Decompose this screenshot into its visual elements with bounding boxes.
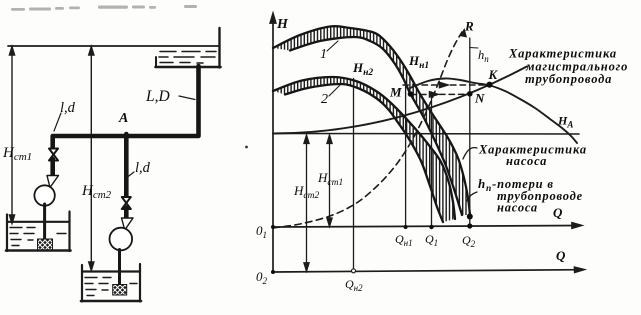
svg-text:Характеристика: Характеристика (508, 47, 617, 61)
leader h_n losses (467, 192, 478, 201)
leader l,d 2 (128, 172, 135, 177)
faded header text fragments (11, 5, 197, 11)
svg-text:02: 02 (256, 269, 268, 286)
text: characteristic of main pipeline (508, 47, 628, 87)
svg-text:насоса: насоса (497, 201, 538, 215)
vertical line Q_n2 (353, 79, 355, 272)
svg-text:HA: HA (557, 114, 573, 130)
H_ст2 dimension arrow (graph) (304, 135, 309, 271)
pipeline (network) characteristic curve (273, 66, 527, 133)
svg-text:Q: Q (553, 205, 563, 220)
point Q2 top (467, 214, 473, 220)
dimension H_cт1 line (9, 47, 14, 224)
svg-text:Hст1: Hст1 (2, 145, 32, 163)
hatched band pump curve 2 (273, 77, 455, 222)
svg-text:Hн2: Hн2 (352, 60, 373, 78)
tick Q_n2 (352, 269, 356, 273)
axis Q lower (O2) (273, 267, 584, 272)
svg-text:Q1: Q1 (425, 232, 438, 248)
valve V2 (122, 197, 131, 209)
suction pipe pump 1 upper (50, 159, 55, 176)
tank T2 (81, 264, 141, 302)
text: h_n losses in pump pipeline (478, 176, 583, 215)
svg-text:Hн1: Hн1 (408, 53, 429, 71)
leader l,d (54, 113, 61, 131)
H_ст1 dimension arrow (graph) (327, 135, 332, 227)
svg-text:1: 1 (320, 47, 327, 62)
strainer S2 (113, 285, 127, 296)
strainer S1 (38, 239, 53, 251)
svg-text:Hст2: Hст2 (81, 183, 112, 201)
svg-text:M: M (389, 85, 402, 100)
svg-text:H: H (276, 17, 289, 32)
vertical line Q_n1 (405, 84, 407, 227)
axis Q upper (O1) (273, 223, 582, 228)
pump curve 2 net (285, 84, 443, 222)
pump P1 (34, 185, 54, 205)
pump P2 nozzle (122, 218, 134, 230)
dashed h_n parabola to R (273, 32, 462, 228)
combined pumps curve through K (410, 78, 577, 143)
pump P2 suction stem (118, 250, 121, 286)
svg-text:трубопровода: трубопровода (525, 72, 612, 86)
pipe below valve 2 (124, 208, 129, 219)
point K (486, 82, 492, 88)
pump P2 (110, 228, 133, 251)
pump P1 nozzle (47, 176, 59, 188)
hatched band pump curve 1 (273, 26, 470, 215)
svg-text:l,d: l,d (60, 100, 76, 116)
svg-text:A: A (118, 111, 128, 126)
svg-text:R: R (464, 19, 474, 34)
pump P1 suction stem (43, 204, 46, 240)
svg-text:L,D: L,D (145, 88, 170, 105)
axis dots (404, 225, 408, 229)
vertical line Q_2 (469, 38, 471, 227)
svg-text:2: 2 (321, 92, 328, 107)
pump curve 1 gross (273, 26, 470, 215)
dashed level line to N (411, 92, 465, 97)
leader pump characteristic (463, 148, 477, 159)
separator dot (245, 146, 248, 149)
leader L,D (179, 96, 195, 100)
dimension H_cт2 line (89, 47, 94, 271)
svg-text:Qн2: Qн2 (345, 277, 363, 293)
dashed level line M to K (403, 82, 484, 87)
leader 2 (329, 85, 340, 96)
svg-text:01: 01 (256, 223, 267, 240)
text: pump characteristic (478, 143, 587, 169)
arrowhead R (460, 28, 468, 38)
static head line (273, 133, 579, 136)
upper tank T3 (156, 28, 221, 68)
svg-text:Q: Q (556, 248, 566, 263)
svg-text:l,d: l,d (135, 160, 151, 176)
pump curve 2 gross (273, 77, 455, 219)
h_n gap tick (470, 47, 478, 50)
svg-text:насоса: насоса (506, 154, 547, 168)
point M (408, 91, 414, 97)
vertical line Q_1 (431, 92, 433, 227)
leader 1 (327, 41, 338, 51)
tank T1 (6, 212, 71, 252)
svg-text:hп: hп (478, 48, 489, 64)
svg-text:N: N (474, 91, 485, 106)
svg-text:Qн1: Qн1 (395, 232, 413, 248)
main discharge pipe (horizontal + riser to upper tank) (53, 66, 199, 148)
axis H (vertical) (270, 14, 276, 273)
svg-text:Q2: Q2 (462, 233, 476, 249)
datum water level line (8, 45, 220, 47)
pump curve 1 net (290, 37, 462, 215)
point N (467, 91, 473, 97)
valve V1 (49, 149, 58, 161)
svg-text:K: K (488, 67, 499, 82)
branch pipe pump 2 (124, 134, 129, 198)
